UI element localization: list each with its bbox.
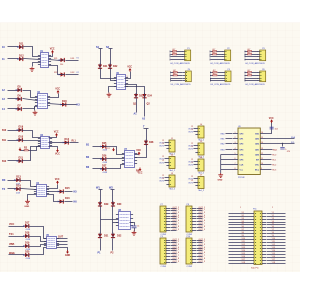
svg-text:OUT_9: OUT_9: [199, 229, 206, 231]
wire: [218, 75, 223, 77]
svg-text:GP5: GP5: [240, 159, 244, 161]
diode D25: [101, 144, 107, 148]
svg-text:Y6: Y6: [272, 226, 274, 228]
wire U9 pin15: [266, 138, 295, 140]
svg-text:OUT_9: OUT_9: [173, 229, 180, 231]
wire T stub: [144, 128, 149, 130]
svg-text:4K7: 4K7: [212, 52, 215, 54]
op-amp U3 (optocoupler): [38, 135, 52, 149]
svg-text:D18: D18: [25, 232, 30, 235]
svg-text:X14: X14: [242, 250, 245, 252]
power B2 lower: [138, 168, 143, 175]
svg-text:OUT_7: OUT_7: [173, 223, 180, 225]
wire U2 to VCC: [48, 94, 59, 98]
svg-text:12: 12: [162, 156, 164, 158]
svg-text:OUT_5: OUT_5: [173, 249, 180, 251]
wire: [171, 256, 177, 258]
wire: [178, 75, 183, 77]
svg-text:470: 470: [287, 151, 290, 153]
svg-text:X12: X12: [242, 244, 245, 246]
wire: [252, 75, 258, 77]
svg-text:GP3: GP3: [240, 149, 244, 151]
svg-text:OUT_9: OUT_9: [173, 261, 180, 263]
svg-text:CON9: CON9: [161, 266, 167, 268]
connector P2: [222, 48, 231, 61]
svg-text:X3: X3: [242, 218, 244, 220]
wire U7 to VCC: [135, 154, 139, 156]
resistor RP61: [248, 72, 252, 73]
wire: [197, 242, 203, 244]
svg-text:U4_CON_AB1234CD: U4_CON_AB1234CD: [210, 83, 230, 86]
wire: [165, 177, 167, 179]
svg-text:12: 12: [191, 126, 193, 128]
wire Walk: [9, 254, 25, 256]
svg-text:D29: D29: [104, 203, 109, 206]
node junction C3: [282, 143, 283, 144]
svg-text:GP1: GP1: [240, 138, 244, 140]
wire IN15: [8, 130, 19, 132]
svg-text:OSC: OSC: [255, 164, 260, 166]
wire: [211, 59, 223, 61]
svg-text:Vss: Vss: [240, 169, 243, 171]
svg-text:12: 12: [162, 160, 164, 162]
wire D7 to U2: [23, 107, 38, 109]
wire P11 R18: [267, 263, 286, 265]
svg-text:SCL: SCL: [291, 142, 295, 144]
svg-text:VCC: VCC: [269, 118, 274, 120]
svg-text:7: 7: [235, 163, 236, 165]
wire: [171, 54, 173, 56]
svg-text:3: 3: [235, 142, 236, 144]
wire C1 to ground: [134, 228, 136, 232]
svg-text:OUT_2: OUT_2: [173, 241, 180, 243]
svg-text:X16: X16: [242, 256, 245, 258]
wire: [197, 227, 203, 229]
wire P11 R2: [267, 216, 286, 218]
svg-text:4K7: 4K7: [247, 73, 250, 75]
connector P7: [160, 204, 170, 232]
connector J3: [166, 173, 175, 187]
svg-text:4K7: 4K7: [172, 49, 175, 51]
svg-text:1: 1: [235, 132, 236, 134]
wire D22 to U6: [111, 69, 117, 81]
power A3 lower: [55, 149, 60, 156]
resistor RP41: [173, 72, 177, 73]
ground A2: [33, 111, 38, 116]
svg-text:9: 9: [261, 168, 262, 170]
svg-text:4K7: 4K7: [247, 70, 250, 72]
wire: [171, 78, 183, 80]
svg-text:104: 104: [275, 128, 278, 130]
svg-text:Y1: Y1: [272, 212, 274, 214]
svg-text:OUT_2: OUT_2: [199, 209, 206, 211]
power VCC A1: [50, 49, 55, 54]
svg-text:OUT2: OUT2: [188, 148, 193, 150]
wire: [197, 208, 203, 210]
op-amp U8 (optocoupler): [116, 210, 133, 230]
svg-text:GP0: GP0: [240, 133, 244, 135]
svg-text:12: 12: [191, 176, 193, 178]
svg-text:D32: D32: [117, 235, 122, 238]
wire IN13: [8, 98, 18, 100]
wire IN11: [8, 58, 19, 60]
svg-text:R21: R21: [54, 58, 57, 60]
wire U3 out: [49, 142, 65, 144]
diode D7: [16, 107, 22, 111]
diode D21: [98, 64, 102, 70]
connector P4: [183, 69, 192, 82]
svg-text:VCC: VCC: [54, 132, 59, 134]
resistor RP32: [248, 54, 252, 55]
wire W2 stub: [111, 189, 115, 191]
resistor RP12: [173, 54, 177, 55]
wire P11 L3: [229, 219, 251, 221]
wire D11 to U3: [23, 147, 41, 161]
svg-text:GND: GND: [24, 206, 29, 208]
wire U9 pin9: [266, 169, 272, 171]
svg-text:U4_CON_AB1234CD: U4_CON_AB1234CD: [171, 83, 191, 86]
svg-text:OUT_2: OUT_2: [199, 241, 206, 243]
connector J5: [195, 141, 204, 155]
wire P11 L17: [229, 260, 251, 262]
svg-text:Y11: Y11: [272, 241, 275, 243]
wire: [171, 213, 177, 215]
connector P3: [257, 48, 266, 61]
wire: [194, 161, 196, 163]
wire out2: [66, 74, 79, 76]
power VCC B1: [127, 67, 132, 72]
svg-text:D11: D11: [19, 43, 24, 46]
wire P11 R17: [267, 260, 286, 262]
svg-text:OUT_6: OUT_6: [173, 252, 180, 254]
wire D28 to U7: [135, 145, 147, 158]
power A3 aux: [19, 148, 22, 152]
wire P11 R15: [267, 254, 286, 256]
resistor RP52: [213, 75, 217, 76]
svg-text:B12: B12: [2, 161, 7, 163]
svg-text:U4_CON_AB1234CD: U4_CON_AB1234CD: [245, 83, 265, 86]
svg-text:AN3: AN3: [255, 137, 259, 140]
wire W1 stub: [99, 189, 103, 191]
diode D22: [108, 64, 112, 70]
svg-text:4K7: 4K7: [212, 49, 215, 51]
wire: [252, 54, 258, 56]
diode D24: [142, 93, 146, 99]
wire: [171, 253, 177, 255]
wire P11 R12: [267, 245, 286, 247]
svg-text:X8: X8: [242, 232, 244, 234]
svg-text:TX: TX: [2, 188, 6, 191]
svg-text:X13: X13: [242, 247, 245, 249]
diode D13: [15, 178, 21, 182]
wire: [177, 54, 183, 56]
wire P11 R10: [267, 239, 286, 241]
resistor RP11: [173, 51, 177, 52]
wire P11 L18: [229, 263, 251, 265]
wire U5 out3: [57, 244, 68, 246]
wire D13 to U4: [21, 181, 37, 187]
diode D9: [17, 128, 23, 132]
wire W1 down: [100, 190, 102, 203]
wire: [171, 224, 177, 226]
svg-text:OUT2: OUT2: [188, 131, 193, 133]
svg-text:B10: B10: [2, 130, 7, 132]
svg-text:X5: X5: [242, 223, 244, 225]
connector P10: [186, 236, 196, 264]
wire U3 to aux power: [49, 147, 58, 149]
svg-text:OUT_6: OUT_6: [199, 220, 206, 222]
diode D31: [98, 233, 102, 239]
wire U2 out: [48, 104, 63, 105]
wire: [171, 75, 174, 77]
wire: [165, 180, 167, 182]
svg-text:D14: D14: [16, 185, 21, 188]
wire D27 to U7: [107, 165, 125, 169]
svg-text:Y8: Y8: [272, 232, 274, 234]
power B2 aux: [112, 148, 115, 152]
wire D1 to U1 pin1: [24, 47, 41, 57]
op-amp U6 (optocoupler): [114, 73, 128, 90]
svg-text:OUT_6: OUT_6: [173, 220, 180, 222]
diode D10: [17, 138, 23, 142]
wire: [211, 75, 213, 77]
wire: [171, 262, 177, 264]
wire: [165, 162, 167, 164]
svg-text:D11: D11: [19, 157, 24, 160]
wire IN14: [8, 108, 18, 110]
svg-text:1: 1: [240, 207, 241, 209]
svg-text:AN0: AN0: [255, 153, 259, 156]
wire: [194, 131, 196, 133]
svg-text:D19: D19: [25, 242, 30, 245]
wire VBB: [9, 246, 25, 248]
wire T down: [146, 129, 148, 141]
wire U9 pin14: [266, 143, 295, 145]
svg-text:OUT_8: OUT_8: [173, 226, 180, 228]
wire P11 L1: [229, 213, 251, 215]
diode D30: [111, 201, 115, 207]
power VCC A4: [55, 179, 60, 184]
wire U1 to VCC: [49, 54, 53, 57]
wire P11 L12: [229, 245, 251, 247]
wire: [171, 80, 183, 82]
diode D18: [24, 234, 30, 238]
wire: [171, 210, 177, 212]
wire: [194, 145, 196, 147]
wire U4 out1: [47, 191, 60, 193]
diode D19: [24, 244, 30, 248]
svg-text:VCC: VCC: [55, 179, 60, 181]
connector P6: [257, 69, 266, 82]
wire D18 to U5: [30, 237, 47, 242]
wire D21 to U6: [101, 69, 117, 79]
svg-text:X9: X9: [242, 235, 244, 237]
svg-text:CON9: CON9: [187, 266, 193, 268]
svg-text:14: 14: [261, 142, 263, 144]
wire: [171, 242, 177, 244]
wire: [165, 142, 167, 144]
wire: [171, 248, 177, 250]
wire: [197, 240, 203, 242]
ground A4: [24, 200, 30, 208]
svg-text:Y15: Y15: [272, 253, 275, 255]
svg-text:Y7: Y7: [272, 229, 274, 231]
wire: [211, 54, 213, 56]
svg-text:Y14: Y14: [272, 250, 275, 252]
svg-text:4K7: 4K7: [213, 73, 216, 75]
wire P11 L10: [229, 239, 251, 241]
svg-text:OUT2: OUT2: [159, 180, 164, 182]
svg-text:X18: X18: [242, 262, 245, 264]
connector J6: [195, 157, 204, 171]
svg-text:OUT_8: OUT_8: [199, 258, 206, 260]
diode D104: [59, 72, 65, 76]
wire U5 out2: [57, 241, 68, 243]
svg-text:D26: D26: [102, 155, 107, 158]
wire: [197, 259, 203, 261]
wire IN10: [8, 46, 19, 48]
resistor RP62: [248, 75, 252, 76]
svg-text:U4_CON_AB1234CD: U4_CON_AB1234CD: [245, 62, 265, 65]
wire: [197, 218, 203, 220]
wire: [171, 59, 183, 61]
svg-text:Mol_2: Mol_2: [199, 190, 205, 192]
wire: [252, 51, 258, 53]
svg-text:D12: D12: [65, 138, 70, 141]
wire: [197, 256, 203, 258]
wire: [197, 250, 203, 252]
diode D11: [17, 159, 23, 163]
ground B3: [132, 231, 137, 236]
svg-text:OUT2: OUT2: [159, 162, 164, 164]
svg-text:4K7: 4K7: [247, 52, 250, 54]
wire: [178, 72, 183, 74]
svg-text:4148: 4148: [16, 192, 20, 194]
svg-text:D12: D12: [19, 55, 24, 58]
svg-text:D14: D14: [60, 64, 63, 66]
wire: [171, 259, 177, 261]
svg-text:D18: D18: [62, 100, 67, 103]
svg-text:K2: K2: [77, 72, 79, 74]
svg-text:D13: D13: [16, 176, 21, 179]
wire: [197, 210, 203, 212]
svg-text:OUT_5: OUT_5: [173, 217, 180, 219]
svg-text:D15: D15: [65, 187, 70, 190]
svg-text:OUT_6: OUT_6: [199, 252, 206, 254]
ic U9 PIC12: [233, 126, 266, 179]
svg-text:D20: D20: [25, 251, 30, 254]
resistor RP21: [213, 51, 217, 52]
wire U1 out2: [49, 66, 61, 75]
wire: [171, 218, 177, 220]
svg-text:Y13: Y13: [272, 247, 275, 249]
op-amp U2 (optocoupler): [35, 92, 50, 109]
wire: [171, 72, 174, 74]
svg-text:D28: D28: [149, 141, 154, 144]
wire U2 to ground: [34, 107, 36, 111]
wire D26 to U7: [107, 158, 125, 160]
svg-text:D21: D21: [103, 65, 108, 68]
svg-text:C1: C1: [137, 226, 139, 228]
ground B1: [107, 93, 112, 98]
svg-text:VCC: VCC: [136, 150, 141, 152]
svg-text:5: 5: [235, 153, 236, 155]
wire TX1: [9, 236, 25, 238]
wire U5 out1: [57, 238, 68, 240]
svg-text:GND: GND: [65, 255, 70, 257]
diode D29: [98, 201, 102, 207]
svg-text:4K7: 4K7: [213, 70, 216, 72]
wire P11 R14: [267, 251, 286, 253]
svg-text:D22: D22: [113, 65, 118, 68]
svg-text:OUT_7: OUT_7: [199, 255, 206, 257]
svg-text:CLK: CLK: [240, 164, 245, 166]
svg-text:U4_CON_AB1234CD: U4_CON_AB1234CD: [210, 62, 230, 65]
wire D10 to U3: [23, 140, 41, 142]
svg-text:4K7: 4K7: [173, 70, 176, 72]
wire D25 to U7: [107, 147, 125, 155]
wire: [245, 72, 248, 74]
wire U9 lower pins to ground bus: [221, 154, 233, 156]
wire D20 to U5: [30, 248, 47, 255]
wire U4 out2: [47, 195, 60, 202]
wire W1 to U8: [101, 219, 119, 221]
svg-text:B11: B11: [2, 140, 7, 142]
svg-text:12: 12: [261, 153, 263, 155]
wire IN16: [8, 140, 19, 142]
wire A4 out1: [65, 191, 73, 193]
wire: [217, 54, 223, 56]
wire: [165, 158, 167, 160]
wire U9 pin1: [226, 133, 233, 135]
diode D14: [15, 187, 21, 191]
svg-text:AN1: AN1: [255, 148, 259, 151]
diode D2: [18, 57, 24, 61]
wire D9 to U3: [23, 131, 41, 138]
svg-text:Y12: Y12: [272, 244, 275, 246]
wire out1 down: [136, 99, 138, 113]
wire P11 R1: [267, 213, 286, 215]
svg-text:D16: D16: [65, 197, 70, 200]
svg-text:X11: X11: [242, 241, 245, 243]
svg-text:D24: D24: [148, 95, 153, 98]
svg-text:4K7: 4K7: [172, 52, 175, 54]
wire: [245, 59, 258, 61]
svg-text:OUT_3: OUT_3: [199, 244, 206, 246]
diode D28: [144, 140, 148, 146]
svg-text:OUT_3: OUT_3: [199, 212, 206, 214]
wire W2 mid: [112, 207, 114, 234]
wire P11 R5: [267, 224, 286, 226]
wire D19 to U5: [30, 245, 47, 247]
wire P11 R13: [267, 248, 286, 250]
power A5: [65, 250, 70, 257]
wire: [194, 164, 196, 166]
op-amp U5 (optocoupler): [44, 235, 59, 249]
diode D27: [101, 167, 107, 171]
wire: [171, 221, 177, 223]
svg-text:X15: X15: [242, 253, 245, 255]
wire: [197, 213, 203, 215]
svg-text:4K7: 4K7: [247, 49, 250, 51]
svg-text:D31: D31: [104, 235, 109, 238]
svg-text:15: 15: [261, 137, 263, 139]
wire P11 L14: [229, 251, 251, 253]
wire P11 L2: [229, 216, 251, 218]
svg-text:VCC: VCC: [9, 223, 14, 226]
wire: [165, 145, 167, 147]
svg-text:1: 1: [127, 76, 128, 78]
